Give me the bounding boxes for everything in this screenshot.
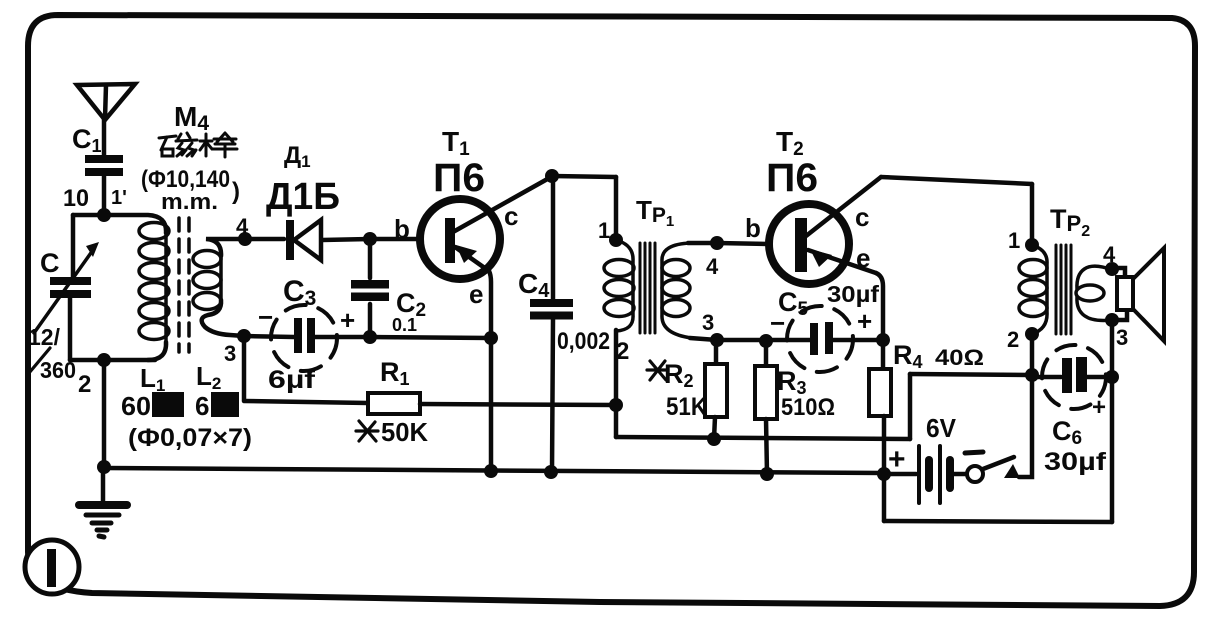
wire L2 bottom to node 3 — [202, 300, 244, 336]
wire bottom left horizontal — [70, 358, 155, 363]
wire C1 to node — [102, 176, 107, 215]
capacitor C1 — [85, 155, 123, 176]
core of Tp1 — [640, 243, 655, 333]
wire C3 to C2 bottom node — [313, 335, 370, 340]
wire Tp1 to T2 base — [717, 243, 770, 244]
svg-text:e: e — [469, 279, 483, 309]
svg-text:1': 1' — [111, 187, 127, 209]
svg-text:m.m.: m.m. — [161, 189, 218, 214]
speaker — [1112, 268, 1125, 277]
wire node to L1 top — [104, 215, 166, 233]
svg-text:40Ω: 40Ω — [935, 345, 984, 370]
wire diode to node b — [322, 239, 370, 240]
svg-text:12/: 12/ — [28, 324, 61, 350]
svg-text:3: 3 — [1116, 325, 1128, 350]
node dots — [97, 169, 1119, 481]
resistor R4 — [881, 340, 886, 370]
variable capacitor C — [50, 277, 91, 298]
antenna — [77, 84, 135, 120]
svg-text:П6: П6 — [766, 156, 818, 200]
wire main bottom bus — [104, 468, 884, 473]
svg-text:0,002: 0,002 — [557, 328, 610, 355]
transistor T1 — [420, 199, 500, 279]
transformer Tp2 secondary — [1077, 266, 1112, 289]
svg-text:+: + — [1092, 394, 1106, 421]
transformer Tp1 secondary — [662, 243, 692, 338]
svg-text:−: − — [258, 302, 273, 332]
wire Tp1 sec bottom to node 3 — [690, 338, 717, 340]
wire to T1 emitter column — [370, 337, 491, 338]
svg-text:П6: П6 — [433, 156, 485, 200]
wire L2 top to node 4 — [206, 239, 245, 256]
wire Tp2 pin1 — [1032, 245, 1047, 334]
wire bus to battery — [884, 472, 916, 477]
wire T2 collector to Tp2 — [881, 177, 1032, 184]
svg-text:+: + — [340, 305, 355, 335]
transformer Tp2 primary — [1019, 260, 1047, 317]
figure number badge — [25, 540, 79, 594]
svg-text:4: 4 — [706, 254, 719, 279]
svg-text:10: 10 — [63, 185, 89, 212]
svg-text:360: 360 — [40, 357, 76, 383]
svg-text:): ) — [232, 178, 240, 205]
svg-text:c: c — [855, 202, 869, 232]
svg-text:e: e — [856, 243, 870, 273]
wire battery return loop — [882, 474, 887, 521]
wire node4 to diode — [245, 237, 284, 242]
svg-text:+: + — [857, 306, 872, 336]
wire Tp1 pin2 down — [614, 330, 619, 437]
svg-text:(Ф0,07×7): (Ф0,07×7) — [128, 424, 252, 452]
wire to R1 — [244, 401, 368, 403]
wire antenna mast — [102, 119, 107, 156]
svg-text:C: C — [40, 248, 60, 278]
wire L1 bottom — [148, 342, 166, 360]
wire b node down — [368, 239, 373, 278]
CJK char bang (rod) — [200, 140, 212, 143]
battery 6V — [917, 446, 921, 503]
svg-text:1: 1 — [598, 218, 610, 243]
transformer Tp1 primary — [616, 240, 633, 331]
wire node3 down — [242, 336, 247, 400]
svg-text:510Ω: 510Ω — [781, 394, 835, 421]
label minus battery — [965, 452, 983, 453]
svg-text:50K: 50K — [381, 417, 428, 447]
svg-text:2: 2 — [1007, 327, 1019, 352]
svg-text:1: 1 — [1008, 228, 1020, 253]
svg-text:3: 3 — [224, 341, 236, 366]
wire Tp2 pin2 down — [1030, 334, 1035, 375]
svg-text:6µf: 6µf — [268, 366, 316, 394]
resistor R3 — [764, 341, 769, 367]
ground — [101, 468, 106, 502]
svg-text:Д1Б: Д1Б — [266, 176, 340, 218]
svg-text:51K: 51K — [666, 393, 707, 421]
svg-text:6V: 6V — [926, 413, 957, 443]
wire R1 right — [420, 404, 616, 405]
svg-text:2: 2 — [616, 338, 629, 365]
wire rail under resistors — [616, 437, 910, 439]
wire varcap to bottom — [68, 298, 73, 360]
wire b to T1 — [370, 237, 421, 242]
svg-text:4: 4 — [236, 214, 249, 239]
svg-text:b: b — [745, 213, 761, 243]
transistor T2 — [769, 204, 849, 284]
svg-text:4: 4 — [1103, 242, 1116, 267]
diode D1 — [286, 220, 294, 260]
resistor R2 — [714, 341, 719, 365]
inductor L2 — [219, 254, 223, 302]
svg-text:60: 60 — [121, 391, 151, 421]
wire top node to Tp1 — [552, 176, 616, 177]
wire battery to switch — [952, 472, 966, 477]
wire C5 to emitter node — [833, 338, 883, 343]
core of antenna coil — [179, 218, 189, 352]
switch — [967, 466, 983, 482]
svg-text:3: 3 — [702, 310, 714, 335]
capacitor C3 electrolytic — [294, 318, 302, 353]
wire node3 to C3 — [244, 336, 294, 337]
wire node to left branch — [73, 213, 104, 218]
capacitor C6 electrolytic — [1032, 375, 1061, 380]
resistor R1 — [368, 393, 420, 414]
svg-text:−: − — [770, 308, 785, 338]
inductor L1 — [164, 230, 168, 346]
svg-text:30µf: 30µf — [827, 281, 879, 307]
svg-text:30µf: 30µf — [1044, 448, 1107, 476]
label magnetic rod (hand-drawn CJK) — [159, 133, 237, 157]
wire Tp1 sec top to node 4 — [688, 241, 717, 246]
svg-text:0.1: 0.1 — [392, 315, 417, 335]
wire down to variable capacitor — [71, 215, 76, 277]
svg-text:b: b — [394, 214, 410, 244]
CJK char ci (magnet) — [159, 136, 176, 138]
svg-text:+: + — [888, 443, 906, 476]
capacitor C4 — [551, 176, 556, 300]
wire T1 emitter down — [489, 271, 491, 471]
core of Tp2 — [1056, 245, 1071, 334]
wire node2 down to bus — [102, 360, 107, 468]
svg-text:c: c — [504, 201, 518, 231]
capacitor C2 — [351, 280, 389, 301]
label *R2 — [647, 361, 668, 380]
svg-text:2: 2 — [78, 371, 91, 398]
wire node3 to C5 — [717, 338, 811, 343]
capacitor C5 electrolytic — [810, 323, 818, 355]
wire switch contact — [1019, 375, 1032, 477]
svg-text:6: 6 — [195, 391, 209, 421]
wire speaker node3 down — [1110, 320, 1115, 377]
